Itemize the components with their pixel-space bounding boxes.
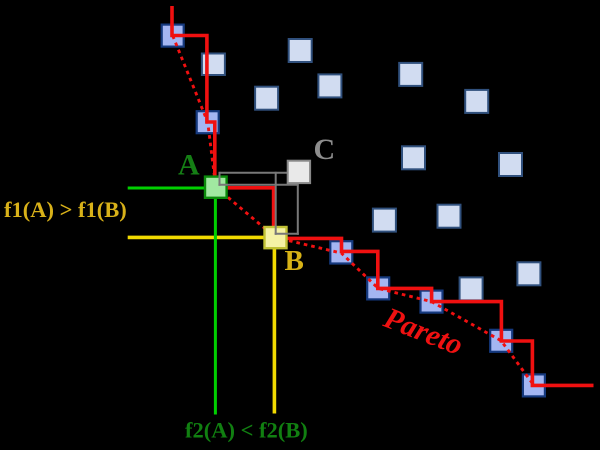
dominated point L7 (402, 146, 425, 169)
svg-text:f2(A) < f2(B): f2(A) < f2(B) (185, 418, 308, 443)
pareto point D1 (162, 25, 184, 47)
dominated point L2 (255, 87, 278, 110)
svg-text:A: A (178, 148, 200, 181)
gray vertical into A (219, 172, 221, 186)
green horizontal line f2(A) level (128, 187, 216, 190)
svg-text:C: C (314, 133, 336, 166)
gray second horizontal through A (218, 184, 298, 186)
point A square (205, 177, 227, 198)
dominated point L4 (318, 74, 341, 97)
gray horizontal to B (275, 233, 299, 235)
point B square (265, 227, 287, 248)
dominated point L11 (517, 262, 540, 285)
dominated point L3 (289, 39, 312, 62)
svg-text:f1(A) > f1(B): f1(A) > f1(B) (4, 197, 127, 222)
pareto point D6 (490, 330, 512, 352)
red staircase front (172, 6, 594, 385)
dominated point L12 (460, 277, 483, 300)
dominated point L8 (499, 153, 522, 176)
pareto point D5 (421, 291, 443, 313)
gray line C to above A (220, 172, 300, 174)
gray vertical below C (297, 172, 299, 235)
dominated point L1 (202, 54, 225, 76)
yellow vertical line f1(B) level (273, 237, 277, 413)
yellow horizontal line f2(B) level (128, 236, 276, 240)
svg-text:B: B (285, 245, 304, 277)
green vertical line f1(A) level (214, 188, 217, 415)
point C square (288, 161, 310, 183)
dominated point L6 (465, 90, 488, 113)
dominated point L5 (399, 63, 422, 86)
dotted pareto curve (173, 36, 534, 386)
pareto point D3 (330, 241, 352, 263)
dominated point L10 (438, 205, 461, 228)
pareto point D7 (523, 374, 545, 396)
gray vertical B center up to C line (275, 172, 277, 235)
dominated point L9 (373, 209, 396, 232)
pareto point D2 (197, 111, 219, 133)
pareto point D4 (367, 277, 389, 299)
